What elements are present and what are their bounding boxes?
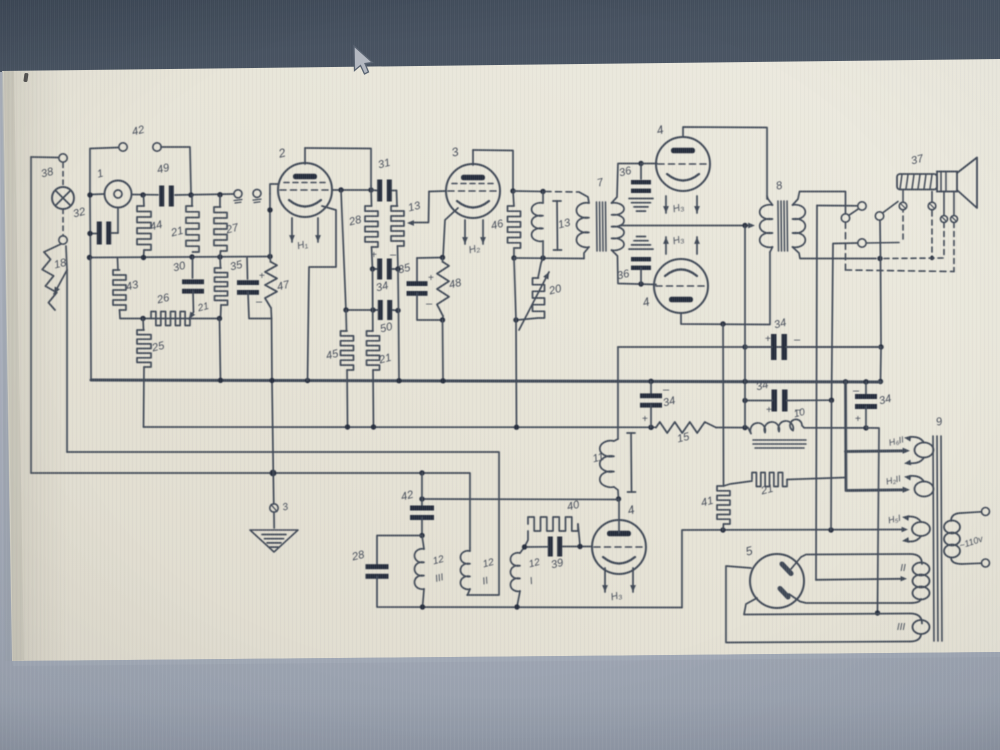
wire y205 to A bbox=[817, 205, 858, 207]
tube 4 output bbox=[592, 520, 646, 574]
tube4b plate wire bbox=[681, 252, 770, 325]
coil 13 bbox=[542, 192, 544, 204]
wire dashed y191 to transformer 7 bbox=[545, 191, 579, 194]
page left shading bbox=[4, 71, 68, 661]
wire x515 cathode column bbox=[514, 258, 516, 320]
t7 center tap line bbox=[620, 225, 749, 227]
wire D dashed to speaker E bbox=[866, 242, 899, 245]
junction jack ground bbox=[87, 192, 92, 197]
junction cap42 branch bbox=[419, 470, 424, 475]
tube2 plate wire bbox=[332, 189, 371, 191]
junction res44 top bbox=[140, 192, 145, 197]
capacitor 34 output bbox=[865, 382, 867, 395]
speaker terminal G bbox=[941, 216, 948, 223]
resistor 48 bbox=[442, 258, 444, 263]
wire jack left lead bbox=[90, 193, 105, 196]
mouse cursor bbox=[354, 46, 373, 74]
choke 11 bbox=[617, 347, 619, 439]
secondary 110V winding bbox=[951, 513, 962, 521]
winding H2-II loop bbox=[915, 482, 934, 497]
tube 5 bbox=[750, 554, 804, 608]
winding H5-I loop bbox=[912, 522, 930, 536]
winding H6-II loop bbox=[915, 443, 934, 458]
tube3 grid wire bbox=[429, 190, 446, 193]
resistor 41 bbox=[722, 324, 725, 486]
winding II loops bbox=[910, 554, 922, 564]
speaker terminal E bbox=[899, 202, 907, 210]
wire x398 column to bus bbox=[397, 269, 400, 311]
tube2 grid stub bbox=[270, 184, 278, 194]
wire x90 to thick bus corner bbox=[90, 258, 93, 381]
speaker 37 driver bbox=[897, 174, 937, 190]
winding H5-I lead bbox=[902, 527, 908, 532]
t8 secondary bottom lead bbox=[793, 247, 877, 259]
left paper edge shading bbox=[2, 71, 24, 661]
transformer 7 core bbox=[596, 202, 599, 251]
tube 4 lower bbox=[654, 259, 708, 313]
transformer 7 left winding bbox=[579, 192, 589, 203]
resistor 13 meander bbox=[396, 191, 399, 207]
rheostat 18 bbox=[44, 244, 61, 252]
wire x67 down to bus452 bbox=[66, 270, 68, 452]
tube4b filament arrows up bbox=[665, 237, 667, 254]
winding H2-II thick lead bbox=[846, 488, 906, 492]
resistor 27 bbox=[219, 195, 221, 207]
capacitor 36 lower bbox=[637, 236, 646, 238]
wire y257 rail bbox=[89, 257, 270, 258]
small dark mark top-left of page bbox=[23, 73, 28, 82]
terminal tlg 2 bbox=[253, 189, 261, 197]
inter-winding arrow bbox=[910, 458, 924, 464]
terminal bbox=[59, 236, 67, 244]
secondary terminals bbox=[962, 512, 982, 513]
junction res27 top bbox=[217, 192, 222, 197]
terminal 3 bbox=[270, 504, 278, 512]
bus y452 bbox=[67, 452, 499, 595]
capacitor 34 filter1 bbox=[771, 334, 777, 360]
switch 42 bbox=[90, 148, 118, 149]
junction switch column bbox=[188, 192, 193, 197]
capacitor 39 bbox=[548, 537, 553, 557]
capacitor 35 bbox=[246, 257, 249, 279]
transformer 8 right winding bbox=[793, 205, 806, 248]
tube3 cathode lead bbox=[443, 208, 458, 258]
wire y258 stub bbox=[417, 257, 443, 260]
speaker terminal H bbox=[951, 216, 958, 223]
junction cap42 bottom bbox=[419, 533, 424, 538]
winding III loops bbox=[910, 614, 922, 624]
switch contact C bbox=[875, 212, 883, 220]
coil 12 II bbox=[469, 548, 471, 551]
capacitor 49 bbox=[159, 186, 164, 207]
resistor 35 lower meander bbox=[219, 257, 222, 268]
capacitor 35 second bbox=[416, 258, 418, 281]
capacitor 32 bbox=[90, 233, 97, 235]
thick bus y381 bbox=[91, 380, 881, 382]
resistor 40 bbox=[525, 531, 529, 547]
arrow tap onto resistor 26 bbox=[189, 312, 194, 319]
transformer 7 right winding bbox=[612, 203, 625, 251]
tube2 top cap wire bbox=[304, 148, 306, 164]
resistor 21 bias bbox=[724, 481, 753, 486]
resistor 28 bbox=[370, 186, 373, 206]
capacitor 34 interstage bbox=[377, 259, 382, 280]
terminal tlg 1 bbox=[234, 190, 242, 198]
resistor 21 bbox=[191, 195, 193, 206]
wire x31 down to bus473 bbox=[30, 157, 32, 473]
coil 12 I bbox=[520, 547, 525, 553]
tube 4 upper bbox=[656, 137, 710, 191]
wire x745 column bbox=[744, 226, 746, 348]
wire dashed lamp top bbox=[62, 163, 64, 187]
wire x90 column bbox=[89, 196, 92, 257]
wire y427 rail bbox=[144, 426, 657, 428]
terminal bbox=[59, 154, 67, 162]
wire top-left to lamp terminal bbox=[31, 156, 58, 159]
tube5 filament lead 1 bbox=[726, 566, 910, 643]
tube3 top wire bbox=[473, 150, 513, 191]
capacitor 30 bbox=[192, 257, 194, 278]
transformer 9 core bbox=[933, 436, 934, 641]
dashed y258 speaker rail bbox=[884, 257, 944, 260]
junction ground node bbox=[270, 470, 277, 477]
t7 secondary top lead bbox=[612, 164, 642, 204]
wire cap35/res47 to bus bbox=[271, 319, 274, 382]
tube5 filament lead 2 bbox=[744, 598, 910, 615]
resistor 26 bbox=[151, 312, 190, 326]
arrow tap 13 bbox=[412, 192, 429, 223]
tube4a filament arrows bbox=[665, 196, 667, 213]
ground symbol bbox=[273, 512, 275, 528]
wire jack bottom to cap32 bbox=[117, 208, 119, 233]
capacitor 34 screen bbox=[650, 381, 652, 394]
resistor 43 bbox=[117, 258, 120, 270]
resistor 21 mid bbox=[372, 269, 374, 331]
coil 13 slug bbox=[556, 201, 559, 250]
choke 10 core bbox=[753, 439, 806, 441]
junction cap32 left bbox=[87, 231, 92, 236]
dashed speaker G column bbox=[943, 223, 945, 259]
tube5 anode lead upper bbox=[791, 554, 910, 569]
speaker terminal F bbox=[928, 202, 936, 210]
switch blade bbox=[849, 209, 859, 215]
tube4a plate wire bbox=[683, 127, 767, 199]
capacitor 28 bbox=[366, 564, 389, 569]
tube5 anode plates bbox=[782, 564, 791, 574]
wire y535 link bbox=[377, 536, 422, 565]
t8 secondary top lead bbox=[793, 192, 846, 214]
wire y499 grid line bbox=[422, 498, 619, 501]
wire y191 to coil bbox=[513, 190, 543, 193]
switch contact D bbox=[858, 239, 866, 247]
tube3 top cap wire bbox=[472, 150, 474, 165]
resistor 46 bbox=[513, 191, 514, 206]
antenna jack 1 bbox=[105, 181, 132, 208]
switch contact B bbox=[841, 214, 849, 222]
tube4a grid lead bbox=[641, 163, 657, 165]
earth hatch upper bbox=[629, 198, 653, 200]
wire dashed lamp bottom bbox=[62, 209, 64, 236]
tube 3 bbox=[446, 164, 500, 218]
wire C column down bbox=[879, 220, 882, 258]
wire switch loop left riser bbox=[89, 149, 91, 196]
rheostat 18 wiper arrow bbox=[66, 246, 67, 270]
tube2 cathode route bbox=[308, 206, 337, 381]
dashed speaker H column bbox=[953, 223, 955, 272]
wire y318 rail bbox=[120, 318, 220, 320]
capacitor 34 filter2 bbox=[772, 390, 778, 412]
capacitor 50 bbox=[378, 300, 383, 320]
transformer 8 core bbox=[777, 201, 780, 251]
t7 secondary bottom lead bbox=[612, 250, 657, 285]
winding H6-II thick lead bbox=[846, 449, 907, 453]
coil 12 III bbox=[422, 536, 424, 550]
choke 11 slug bbox=[630, 433, 633, 492]
wire x219 to thick bus bbox=[220, 319, 221, 382]
transformer 8 left winding bbox=[760, 205, 773, 248]
resistor 25 bbox=[142, 319, 145, 331]
tube2 filament arrows H1 bbox=[291, 218, 293, 242]
wire y347 B+ rail bbox=[618, 346, 881, 348]
dashed bottom rail bbox=[846, 270, 955, 272]
wire y427 to winding III bbox=[863, 425, 868, 430]
wire grid column down bbox=[269, 194, 271, 257]
winding II tap arrow bbox=[816, 579, 902, 580]
switch contact A bbox=[858, 202, 866, 210]
speaker lead wires bbox=[902, 190, 904, 202]
lamp 38 bbox=[52, 187, 74, 209]
wire jack to cap49 bbox=[132, 194, 159, 196]
top dark screen band bbox=[0, 0, 1000, 72]
capacitor 42 bbox=[421, 473, 423, 506]
wire x845 thick column bbox=[844, 382, 847, 489]
dashed B down bbox=[845, 222, 847, 270]
tube3 filament arrows H2 bbox=[464, 220, 466, 244]
wire plate branch x341 bbox=[341, 190, 346, 310]
capacitor 31 bbox=[377, 180, 382, 202]
variable inductor 20 bbox=[538, 258, 543, 278]
bus y473 bbox=[31, 473, 470, 548]
wire y530 rail bbox=[682, 530, 905, 608]
resistor 15 bbox=[656, 422, 716, 433]
dashed speaker F column bbox=[931, 211, 933, 258]
wire C to speaker bbox=[883, 202, 899, 214]
wire x816 long column bbox=[816, 206, 817, 581]
wire x831 column bbox=[830, 400, 833, 530]
wire cap49 to grid line bbox=[175, 194, 234, 195]
tube 2 bbox=[278, 163, 332, 217]
tube4c filament arrows bbox=[604, 568, 606, 592]
tube5 anode lead lower bbox=[789, 594, 910, 603]
ground stem bbox=[272, 381, 273, 473]
wire y258 rail bbox=[514, 257, 584, 260]
resistor 47 bbox=[269, 257, 272, 263]
tube2 top wire to cap31 bbox=[305, 148, 371, 186]
choke 10 bbox=[748, 419, 804, 433]
wire D to left column bbox=[832, 243, 858, 400]
wire res48 to bus bbox=[442, 320, 445, 381]
resistor 44 bbox=[137, 206, 151, 250]
speaker 37 horn bbox=[957, 158, 977, 209]
bottom paper edge shadow bbox=[12, 652, 1000, 666]
speaker 37 magnet bbox=[937, 172, 957, 192]
resistor 45 bbox=[345, 310, 348, 331]
capacitor 36 upper bbox=[640, 164, 642, 180]
